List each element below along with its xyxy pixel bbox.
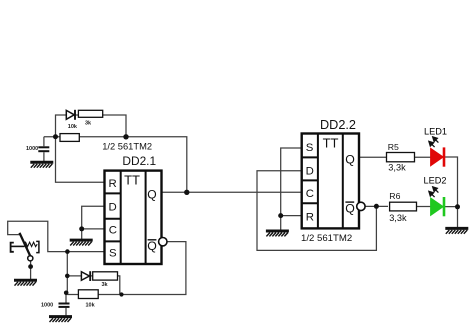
ground at capacitor C2 <box>49 317 72 322</box>
inversion bubble on Q-bar output DD2.2 <box>357 202 365 210</box>
wire S node down to bottom RC network <box>66 252 68 295</box>
svg-text:R6: R6 <box>389 191 400 201</box>
wire Q output DD2.1 to C input DD2.2 <box>162 191 302 193</box>
inversion bubble on Q-bar output DD2.1 <box>159 238 167 246</box>
svg-text:Q: Q <box>345 201 355 215</box>
junction node A (top RC / R input) <box>53 134 58 139</box>
svg-text:TT: TT <box>124 172 140 187</box>
junction node S input DD2.1 <box>65 249 70 254</box>
wire D input DD2.2 to Q-bar output DD2.2 (toggle feedback) <box>257 171 376 251</box>
resistor R5 <box>387 153 415 162</box>
diode (top RC network) <box>66 110 75 120</box>
svg-text:S: S <box>109 248 117 260</box>
wire bottom RC row to Q-bar output DD2.1 <box>67 242 186 295</box>
junction node D/C ground DD2.1 <box>79 226 84 231</box>
junction node Q-bar output DD2.2 <box>374 204 379 209</box>
svg-text:S: S <box>306 142 314 154</box>
svg-text:R: R <box>109 178 117 190</box>
svg-text:C: C <box>306 188 314 200</box>
flip-flop DD2.2 body <box>302 134 359 229</box>
junction node bottom diode branch <box>65 274 70 279</box>
svg-text:DD2.1: DD2.1 <box>122 154 156 168</box>
wire node A down to R input of DD2.1 <box>56 115 105 183</box>
svg-text:TT: TT <box>323 135 339 150</box>
wire capacitor C1 leads <box>43 137 45 162</box>
wire Q output DD2.2 through R5 and LED1 to ground rail <box>359 157 458 227</box>
resistor R6 <box>390 202 417 211</box>
svg-text:3,3k: 3,3k <box>388 162 406 172</box>
svg-text:3k: 3k <box>102 282 109 288</box>
resistor 3k (bottom RC diode branch) <box>93 272 118 280</box>
switch terminal dot <box>28 264 33 269</box>
junction node bottom RC right <box>119 292 123 296</box>
LED2 (green) <box>431 197 444 216</box>
wire capacitor C2 leads <box>65 295 67 316</box>
svg-text:1000: 1000 <box>41 302 53 308</box>
svg-text:LED2: LED2 <box>424 176 447 186</box>
svg-text:Q: Q <box>147 239 157 253</box>
junction node LED cathode rail <box>455 204 460 209</box>
switch roller contact <box>28 256 33 261</box>
ground at capacitor C1 <box>30 162 53 167</box>
svg-text:1/2 561TM2: 1/2 561TM2 <box>301 233 352 244</box>
switch return spring <box>24 242 37 246</box>
svg-text:LED1: LED1 <box>424 127 447 137</box>
svg-text:R: R <box>306 212 314 224</box>
svg-text:10k: 10k <box>68 124 78 130</box>
wire R input DD2.2 to ground node <box>281 216 302 230</box>
svg-text:10k: 10k <box>86 303 96 309</box>
svg-text:Q: Q <box>147 187 156 201</box>
resistor 10k (bottom RC feedback) <box>78 290 98 299</box>
wire Q-bar output DD2.2 through R6 and LED2 to ground rail <box>365 205 457 207</box>
wire top RC diode branch: node A up, right to node B <box>55 115 126 137</box>
wire S input DD2.1 to switch <box>8 221 105 251</box>
junction node B (top RC right) <box>123 134 128 139</box>
junction node S/R ground DD2.2 <box>278 213 283 218</box>
wire bottom RC diode branch <box>67 276 120 295</box>
wire S input DD2.2 to ground node <box>281 148 302 216</box>
resistor 10k (top RC feedback) <box>60 134 79 142</box>
switch actuating arm <box>20 233 32 258</box>
ground at D/C inputs DD2.1 <box>70 240 93 245</box>
pushbutton switch <box>11 233 39 269</box>
junction node capacitor C2 <box>64 291 69 296</box>
wire D input DD2.1 to ground node <box>82 206 105 229</box>
ground at LED cathodes <box>445 228 468 233</box>
LED1 emission arrows <box>429 137 439 147</box>
switch spring anchor <box>36 241 39 252</box>
svg-text:C: C <box>109 225 117 237</box>
svg-text:3,3k: 3,3k <box>389 213 407 223</box>
junction node Q1 output <box>184 190 189 195</box>
svg-text:DD2.2: DD2.2 <box>320 118 356 132</box>
LED1 (red) <box>431 147 444 166</box>
svg-text:D: D <box>306 165 314 177</box>
capacitor C1 1000 <box>38 147 49 151</box>
svg-text:1000: 1000 <box>26 146 38 152</box>
svg-text:Q: Q <box>345 153 355 167</box>
LED2 emission arrows <box>429 187 439 197</box>
capacitor C2 1000 <box>59 304 70 307</box>
ground at switch <box>14 280 37 285</box>
wire switch contact to ground <box>30 261 32 280</box>
wire feedback row: cap C1 stub, node A to node B to Q1 vertical <box>44 137 187 193</box>
resistor 3k (top RC diode branch) <box>78 110 102 117</box>
switch fixed contact bracket <box>11 243 14 252</box>
flip-flop DD2.1 body <box>105 171 162 265</box>
svg-text:R5: R5 <box>388 142 399 152</box>
ground at S/R inputs DD2.2 <box>266 231 289 236</box>
svg-text:1/2 561TM2: 1/2 561TM2 <box>102 141 152 151</box>
svg-text:3k: 3k <box>85 121 92 127</box>
diode (bottom RC network) <box>81 271 90 281</box>
switch contact blade <box>12 245 25 247</box>
svg-text:D: D <box>109 202 117 214</box>
wire C input DD2.1 to ground node <box>82 229 105 239</box>
